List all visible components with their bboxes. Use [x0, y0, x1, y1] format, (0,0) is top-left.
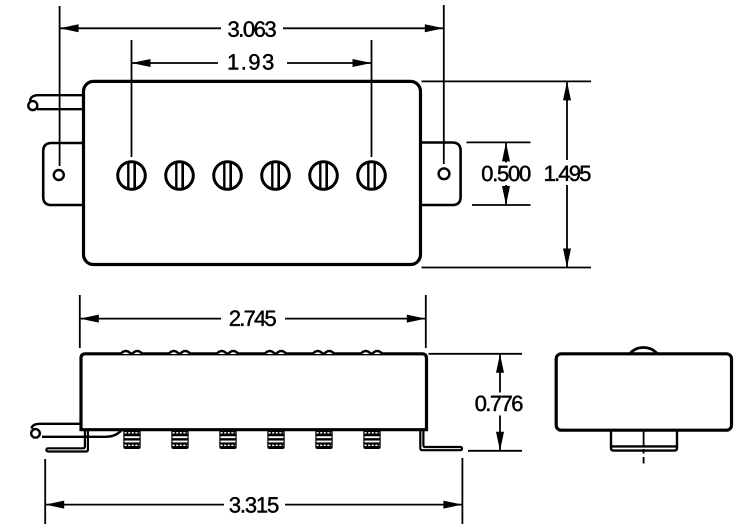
dim 2.745 [80, 308, 426, 330]
pole screw P5 [310, 162, 338, 190]
cover (end view) [556, 354, 731, 430]
dim 3.315 extension lines [45, 458, 462, 524]
dim 3.315 [45, 493, 462, 517]
pickup cover (top view) [84, 81, 421, 264]
pole screw thread T1 [123, 430, 140, 449]
dim 0.776 extension lines [429, 354, 523, 451]
dim 2.745 extension lines [80, 295, 426, 348]
pole screw thread T2 [171, 430, 188, 449]
dim 1.93 extension lines [132, 40, 372, 157]
dim 3.063 [60, 17, 444, 40]
pole screw thread T3 [219, 430, 236, 449]
pole screw thread T6 [363, 430, 380, 449]
dim 0.500 extension lines [467, 142, 531, 205]
screw slot bumps S6 [361, 351, 383, 354]
dim 0.776 [474, 354, 527, 451]
ear hole (right) [439, 168, 450, 179]
bobbin tab (end view) [611, 430, 677, 450]
dim 1.495 extension lines [422, 81, 592, 267]
pole screw P4 [262, 162, 290, 190]
ear hole (left) [54, 170, 64, 180]
dim 0.500 [480, 142, 532, 205]
screw slot bumps S3 [217, 351, 239, 354]
wire lead (side view) [31, 424, 121, 438]
dim 1.495 [540, 81, 594, 267]
screw head dome (end view) [630, 347, 658, 354]
mounting ear (right) [420, 143, 461, 206]
screw slot bumps S5 [313, 351, 335, 354]
mounting ear (left) [43, 143, 84, 205]
pole screw thread T5 [315, 430, 332, 449]
dim 3.063 extension lines [60, 5, 444, 166]
pole screw P1 [118, 162, 146, 190]
cover (side view) [81, 354, 427, 430]
screw slot bumps S4 [265, 351, 287, 354]
screw slot bumps S1 [121, 351, 143, 354]
centerline [643, 431, 645, 464]
pole screw thread T4 [267, 430, 284, 449]
pole screw P6 [358, 162, 386, 190]
pole screw P2 [166, 162, 194, 190]
screw slot bumps S2 [169, 351, 191, 354]
baseplate flange (right) [420, 431, 462, 451]
dim 1.93 [132, 52, 372, 75]
wire lead (top view) [28, 95, 84, 110]
pole screw P3 [214, 162, 242, 190]
baseplate flange (left) [46, 431, 88, 452]
